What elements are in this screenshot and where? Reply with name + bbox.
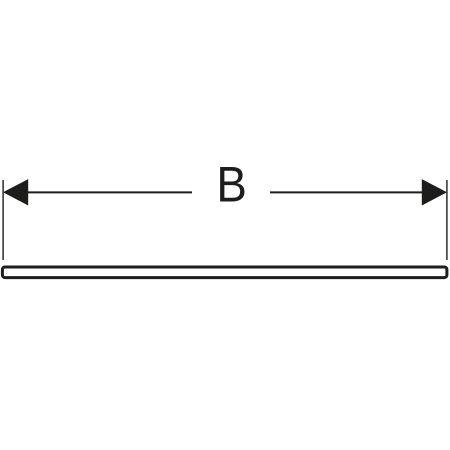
svg-text:B: B bbox=[216, 158, 247, 213]
